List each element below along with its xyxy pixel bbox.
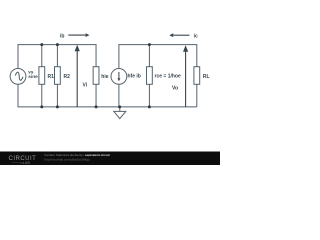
svg-text:Vo: Vo: [172, 86, 178, 92]
svg-text:rce = 1/hoe: rce = 1/hoe: [155, 74, 181, 80]
svg-text:ib: ib: [60, 33, 64, 39]
svg-text:R1: R1: [48, 74, 55, 80]
svg-text:───═LAB: ───═LAB: [11, 161, 31, 165]
svg-text:RL: RL: [203, 74, 210, 80]
svg-text:http:⁄⁄circuitlab.com⁄c⁄8pv5cr: http:⁄⁄circuitlab.com⁄c⁄8pv5cr2⁄6kqp: [44, 157, 90, 161]
svg-text:Vi: Vi: [82, 83, 87, 89]
svg-text:hie: hie: [101, 74, 108, 80]
svg-text:R2: R2: [64, 74, 71, 80]
svg-text:sine: sine: [28, 74, 38, 79]
svg-text:ic: ic: [194, 33, 198, 39]
svg-text:hfe ib: hfe ib: [128, 74, 141, 80]
